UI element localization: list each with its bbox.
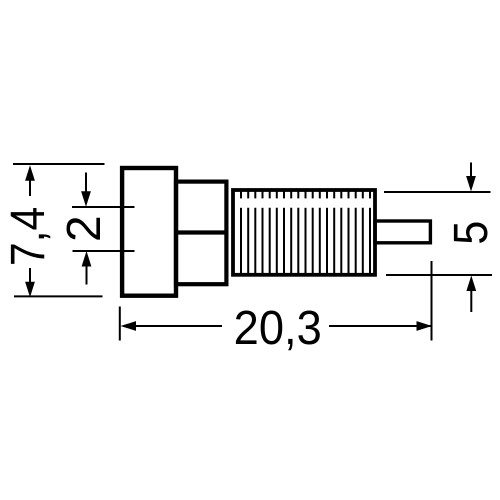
svg-text:5: 5 [444,221,498,245]
svg-text:20,3: 20,3 [234,301,322,355]
svg-text:2: 2 [58,215,111,242]
svg-text:7,4: 7,4 [1,207,55,266]
